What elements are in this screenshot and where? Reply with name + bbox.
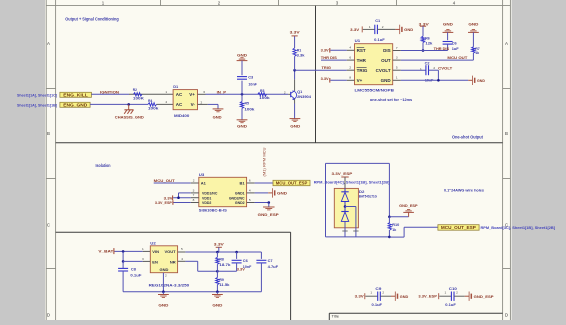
svg-text:2N3904: 2N3904 [297, 94, 312, 99]
svg-text:B: B [47, 131, 50, 136]
svg-text:DIS: DIS [383, 48, 391, 53]
svg-text:2: 2 [382, 290, 384, 294]
svg-text:1: 1 [396, 76, 398, 80]
svg-text:1k: 1k [475, 50, 480, 55]
svg-text:ENG_KILL: ENG_KILL [63, 93, 88, 98]
svg-text:3: 3 [142, 257, 144, 261]
svg-text:D: D [505, 312, 508, 317]
svg-text:6: 6 [203, 90, 205, 94]
svg-text:REG102NA-3.3/250: REG102NA-3.3/250 [149, 282, 190, 287]
svg-text:MCU_OUT: MCU_OUT [154, 178, 176, 183]
svg-text:C8: C8 [131, 266, 137, 271]
svg-text:GND_ESP: GND_ESP [399, 203, 418, 208]
svg-text:1: 1 [370, 290, 372, 294]
svg-text:3.3V_ESP: 3.3V_ESP [155, 200, 172, 205]
svg-text:3.3V: 3.3V [214, 242, 224, 247]
svg-text:Sheet1[1A], Sheet1[1C]: Sheet1[1A], Sheet1[1C] [17, 92, 58, 97]
svg-text:R2: R2 [133, 87, 138, 92]
svg-text:VDD2: VDD2 [202, 201, 211, 205]
svg-text:3.3V: 3.3V [355, 293, 364, 298]
svg-text:VIN: VIN [152, 249, 159, 254]
svg-text:MCU_OUT_ESP: MCU_OUT_ESP [441, 225, 476, 230]
svg-text:3.3V: 3.3V [321, 76, 329, 81]
svg-text:GND: GND [404, 27, 413, 32]
svg-text:18.7k: 18.7k [219, 262, 231, 267]
svg-text:D1: D1 [173, 84, 179, 89]
svg-text:THR DIS: THR DIS [434, 46, 450, 51]
svg-text:AC: AC [176, 92, 183, 97]
svg-text:1uF: 1uF [452, 46, 460, 51]
svg-text:C1: C1 [375, 18, 381, 23]
svg-text:0.1uF: 0.1uF [130, 272, 142, 277]
svg-text:3.3V: 3.3V [419, 21, 429, 26]
svg-text:1: 1 [420, 67, 422, 71]
svg-text:2: 2 [349, 66, 351, 70]
svg-text:C2: C2 [425, 61, 431, 66]
svg-text:Title: Title [332, 314, 340, 318]
svg-text:RST: RST [357, 48, 366, 53]
svg-text:3: 3 [193, 188, 195, 192]
svg-text:B: B [505, 131, 508, 136]
svg-text:One-shot Output: One-shot Output [452, 134, 484, 139]
svg-text:8: 8 [349, 76, 351, 80]
svg-text:2: 2 [284, 91, 286, 95]
svg-text:1k: 1k [392, 227, 397, 232]
svg-text:U1: U1 [355, 38, 361, 43]
svg-text:R5: R5 [245, 101, 250, 106]
svg-text:R4: R4 [148, 98, 153, 103]
svg-text:NR: NR [170, 259, 176, 264]
svg-text:4: 4 [165, 100, 167, 104]
svg-text:GND1: GND1 [235, 192, 245, 196]
svg-text:3.3V: 3.3V [350, 27, 359, 32]
svg-text:4: 4 [181, 257, 183, 261]
svg-text:C3: C3 [248, 74, 254, 79]
svg-text:MID400: MID400 [174, 113, 190, 118]
svg-text:100K: 100K [133, 95, 144, 100]
svg-text:LMC555CM/NOPB: LMC555CM/NOPB [355, 88, 395, 93]
svg-text:Si8610BC-B-IS: Si8610BC-B-IS [199, 208, 227, 213]
svg-text:V+: V+ [357, 78, 363, 83]
svg-text:0.1uF: 0.1uF [372, 302, 383, 307]
svg-text:A: A [47, 41, 50, 46]
svg-text:3.3V_ESP: 3.3V_ESP [332, 171, 353, 176]
svg-text:GND: GND [212, 304, 222, 308]
svg-text:R3: R3 [260, 88, 265, 93]
svg-text:10nF: 10nF [248, 81, 257, 86]
svg-text:OUT: OUT [381, 58, 391, 63]
svg-text:GND: GND [477, 78, 485, 83]
svg-text:CVOLT: CVOLT [438, 65, 453, 70]
svg-text:U2: U2 [150, 241, 156, 246]
svg-text:Sheet1[1A], Sheet1[1B]: Sheet1[1A], Sheet1[1B] [17, 102, 58, 107]
svg-text:C6: C6 [452, 41, 458, 46]
svg-text:4: 4 [249, 188, 251, 192]
svg-text:GND_ESP: GND_ESP [258, 212, 279, 217]
svg-text:3.3V: 3.3V [290, 29, 300, 34]
svg-text:Isolation: Isolation [96, 163, 111, 168]
svg-text:4: 4 [349, 46, 351, 50]
svg-text:11.5k: 11.5k [219, 282, 230, 287]
svg-text:V_BAT: V_BAT [98, 249, 114, 254]
svg-text:3.3V_ESP: 3.3V_ESP [418, 293, 437, 298]
svg-text:GND: GND [158, 304, 168, 308]
svg-text:2: 2 [456, 290, 458, 294]
svg-text:GND: GND [213, 115, 222, 119]
svg-text:AC: AC [176, 102, 183, 107]
svg-text:2: 2 [201, 100, 203, 104]
svg-text:GND: GND [290, 124, 300, 128]
svg-text:MCU OUT: MCU OUT [447, 55, 468, 60]
svg-text:B1: B1 [239, 181, 245, 186]
svg-text:1: 1 [369, 25, 371, 29]
svg-text:3.3k: 3.3k [297, 52, 306, 57]
svg-text:THR: THR [357, 58, 367, 63]
svg-text:V+: V+ [189, 92, 195, 97]
svg-text:5: 5 [396, 66, 398, 70]
svg-text:GND: GND [159, 267, 168, 272]
svg-text:12k: 12k [425, 41, 433, 46]
svg-text:100k: 100k [259, 95, 270, 100]
svg-text:GND_ESP: GND_ESP [474, 294, 494, 299]
svg-text:D: D [47, 312, 50, 317]
svg-text:(M1) RPM MCU: (M1) RPM MCU [262, 147, 267, 176]
svg-text:5: 5 [249, 198, 251, 202]
svg-text:3.3V: 3.3V [237, 267, 245, 272]
svg-text:CHASSIS_GND: CHASSIS_GND [115, 114, 144, 119]
svg-text:TRIG: TRIG [322, 65, 332, 70]
svg-text:1: 1 [445, 290, 447, 294]
svg-text:VDD1: VDD1 [202, 196, 211, 200]
svg-text:GND: GND [237, 53, 247, 57]
svg-text:A: A [505, 41, 508, 46]
svg-text:6: 6 [249, 178, 251, 182]
svg-text:100k: 100k [244, 107, 255, 112]
svg-text:C9: C9 [375, 286, 382, 291]
svg-text:ENG_GND: ENG_GND [63, 103, 87, 108]
svg-text:4.7uF: 4.7uF [268, 264, 279, 269]
svg-text:A1: A1 [201, 181, 207, 186]
svg-text:6: 6 [349, 56, 351, 60]
svg-text:U3: U3 [199, 172, 205, 177]
svg-text:GND: GND [381, 78, 392, 83]
svg-text:7: 7 [193, 193, 195, 197]
svg-text:8: 8 [193, 198, 195, 202]
svg-text:TRIG: TRIG [357, 68, 368, 73]
svg-text:GND2/NC: GND2/NC [229, 196, 245, 200]
svg-text:7: 7 [396, 46, 398, 50]
svg-text:RPM_Board[3C], Sheet1[1B], She: RPM_Board[3C], Sheet1[1B], Sheet1[2B] [481, 225, 556, 230]
svg-text:GND: GND [400, 294, 409, 299]
svg-text:2: 2 [382, 25, 384, 29]
svg-text:0.1"24AWG wire holes: 0.1"24AWG wire holes [444, 188, 485, 193]
svg-text:one-shot set for ~12ms: one-shot set for ~12ms [370, 97, 413, 102]
svg-text:R6: R6 [425, 35, 430, 40]
svg-text:VDD1/NC: VDD1/NC [202, 192, 218, 196]
svg-text:C: C [47, 223, 50, 228]
svg-text:CVOLT: CVOLT [376, 68, 391, 73]
svg-text:VOUT: VOUT [164, 249, 176, 254]
svg-text:0.1uF: 0.1uF [445, 302, 456, 307]
svg-text:5: 5 [181, 247, 183, 251]
svg-text:3.3V: 3.3V [321, 48, 329, 53]
svg-text:100k: 100k [148, 105, 159, 110]
svg-text:1: 1 [165, 90, 167, 94]
svg-text:IGNITION: IGNITION [100, 90, 119, 95]
svg-text:MCU_OUT_ESP: MCU_OUT_ESP [276, 181, 308, 186]
svg-text:EN: EN [152, 259, 158, 264]
svg-text:2: 2 [165, 273, 167, 277]
svg-text:BAT54SLT1G: BAT54SLT1G [359, 194, 377, 199]
svg-text:Output + Signal Conditioning: Output + Signal Conditioning [65, 17, 119, 22]
svg-text:GND2: GND2 [235, 201, 245, 205]
svg-text:GND: GND [468, 23, 478, 27]
svg-text:1: 1 [142, 247, 144, 251]
svg-text:GND: GND [443, 23, 453, 27]
svg-text:THR DIS: THR DIS [321, 55, 337, 60]
svg-text:C6: C6 [243, 258, 249, 263]
svg-text:2: 2 [193, 178, 195, 182]
svg-text:3: 3 [396, 56, 398, 60]
svg-text:2: 2 [433, 66, 435, 70]
svg-text:GND: GND [277, 191, 287, 196]
svg-text:C7: C7 [268, 258, 274, 263]
svg-text:0.1uF: 0.1uF [374, 37, 385, 42]
svg-text:V-: V- [191, 102, 196, 107]
svg-text:IN_P: IN_P [217, 90, 227, 95]
svg-text:GND: GND [237, 124, 247, 128]
